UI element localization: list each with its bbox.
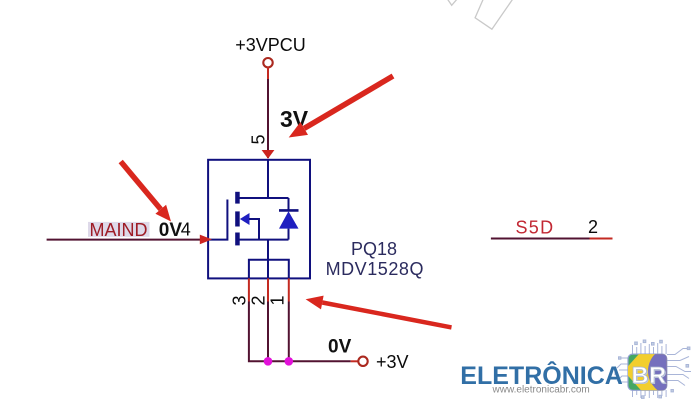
svg-text:BR: BR	[632, 362, 667, 388]
pin 1 of PQ18	[268, 278, 289, 305]
svg-text:PQ18: PQ18	[351, 239, 397, 259]
wire pin 1 to +3V rail	[288, 302, 290, 362]
body diode	[279, 198, 299, 240]
MOSFET drain connection	[240, 160, 289, 198]
svg-text:0V: 0V	[159, 220, 183, 241]
svg-text:S5D: S5D	[516, 218, 555, 238]
svg-text:4: 4	[181, 220, 191, 240]
wire pin 3 to +3V rail	[249, 302, 268, 362]
wire +3V rail	[268, 360, 351, 362]
power terminal +3V	[351, 357, 368, 366]
svg-text:3: 3	[229, 295, 249, 305]
junction	[264, 357, 273, 366]
MOSFET gate	[208, 200, 227, 240]
MOSFET body arrow and source connection	[240, 213, 289, 260]
source pin bus inside box	[249, 260, 289, 279]
annotation arrow left	[119, 160, 171, 222]
svg-text:MAIND: MAIND	[90, 220, 148, 240]
MOSFET channel bars	[235, 192, 240, 246]
svg-text:www.eletronicabr.com: www.eletronicabr.com	[492, 385, 590, 396]
wire MAIND	[47, 239, 209, 241]
svg-text:1: 1	[268, 295, 288, 305]
power terminal +3VPCU	[263, 58, 272, 79]
logo ELETRONICA BR	[460, 335, 691, 399]
annotation arrowhead at pin 5	[262, 150, 275, 159]
wire S5D	[491, 238, 590, 240]
svg-text:2: 2	[588, 217, 598, 237]
svg-text:MDV1528Q: MDV1528Q	[326, 259, 424, 279]
pin 2 (right part)	[588, 217, 613, 239]
svg-text:+3VPCU: +3VPCU	[235, 35, 306, 55]
net label MAIND	[88, 220, 150, 240]
wire +3VPCU to pin 5	[267, 79, 269, 158]
junction	[285, 357, 294, 366]
pin 2 of PQ18	[248, 278, 268, 305]
annotation arrow top	[289, 74, 395, 138]
svg-text:5: 5	[248, 134, 268, 144]
svg-text:2: 2	[248, 295, 268, 305]
transistor PQ18 body outline	[208, 160, 310, 279]
wire pin 2 to +3V rail	[267, 302, 269, 362]
svg-text:+3V: +3V	[376, 352, 409, 372]
annotation arrowhead at pin 4	[200, 235, 212, 245]
annotation arrow bottom	[306, 296, 452, 330]
svg-text:0V: 0V	[328, 336, 352, 357]
pin 3 of PQ18	[229, 278, 249, 305]
